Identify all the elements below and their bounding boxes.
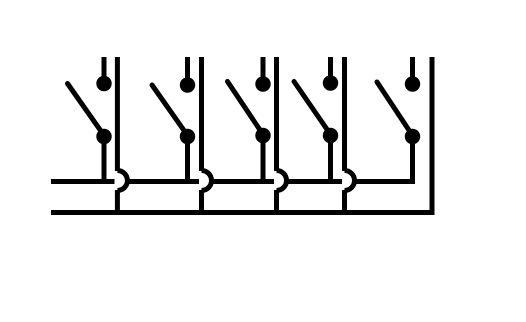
switch S3 lever (open) bbox=[228, 82, 263, 134]
wire S3 stem to upper bus bbox=[261, 136, 266, 183]
wire: upper bus rail segment 5 bbox=[355, 179, 416, 184]
wire S1 bypass top feed bbox=[115, 57, 120, 171]
wire S5 stem to upper bus corner bbox=[410, 137, 415, 185]
wire S3 top feed bbox=[261, 57, 266, 82]
node S5 lower contact bbox=[405, 129, 420, 144]
wire hop: S3 bypass over upper bus bbox=[277, 171, 287, 191]
wire S4 stem to upper bus bbox=[328, 136, 333, 183]
node S3 lower contact bbox=[255, 128, 270, 143]
wire S5 top feed bbox=[410, 57, 415, 82]
wire S3 bypass top feed bbox=[274, 57, 279, 171]
wire: upper bus rail segment 2 bbox=[127, 179, 199, 184]
wire S4 bypass top feed bbox=[342, 57, 347, 171]
wire hop: S2 bypass over upper bus bbox=[202, 171, 212, 191]
wire hop: S4 bypass over upper bus bbox=[345, 171, 355, 191]
wire S1 stem to upper bus bbox=[102, 137, 107, 183]
switch S5 lever (open) bbox=[377, 82, 412, 134]
node S2 lower contact bbox=[180, 129, 195, 144]
wire S5 bypass down right side to lower bus corner bbox=[430, 57, 435, 215]
wire hop: S1 bypass over upper bus bbox=[117, 171, 127, 191]
wire S1 top feed bbox=[102, 57, 107, 82]
switch S2 lever (open) bbox=[152, 85, 187, 134]
wire S3 bypass to lower bus bbox=[274, 190, 279, 213]
node S4 lower contact bbox=[323, 128, 338, 143]
wire: upper bus rail segment 3 bbox=[212, 179, 275, 184]
wire S2 stem to upper bus bbox=[185, 137, 190, 183]
wire S2 bypass to lower bus bbox=[199, 190, 204, 213]
wire: upper bus rail segment 1 bbox=[51, 179, 115, 184]
wire S1 bypass to lower bus bbox=[115, 190, 120, 213]
node S4 upper contact bbox=[323, 75, 338, 90]
node S3 upper contact bbox=[255, 76, 270, 91]
switch S4 lever (open) bbox=[294, 82, 330, 134]
node S1 lower contact bbox=[96, 129, 111, 144]
wire S2 top feed bbox=[185, 57, 190, 82]
wire S4 bypass to lower bus bbox=[342, 190, 347, 213]
node S2 upper contact bbox=[180, 77, 195, 92]
wire S4 top feed bbox=[328, 57, 333, 82]
wire: lower bus rail bbox=[51, 210, 435, 215]
switch S1 lever (open) bbox=[68, 84, 104, 135]
wire: upper bus rail segment 4 bbox=[287, 179, 343, 184]
wire S2 bypass top feed bbox=[199, 57, 204, 171]
node S1 upper contact bbox=[96, 76, 111, 91]
node S5 upper contact bbox=[405, 76, 420, 91]
